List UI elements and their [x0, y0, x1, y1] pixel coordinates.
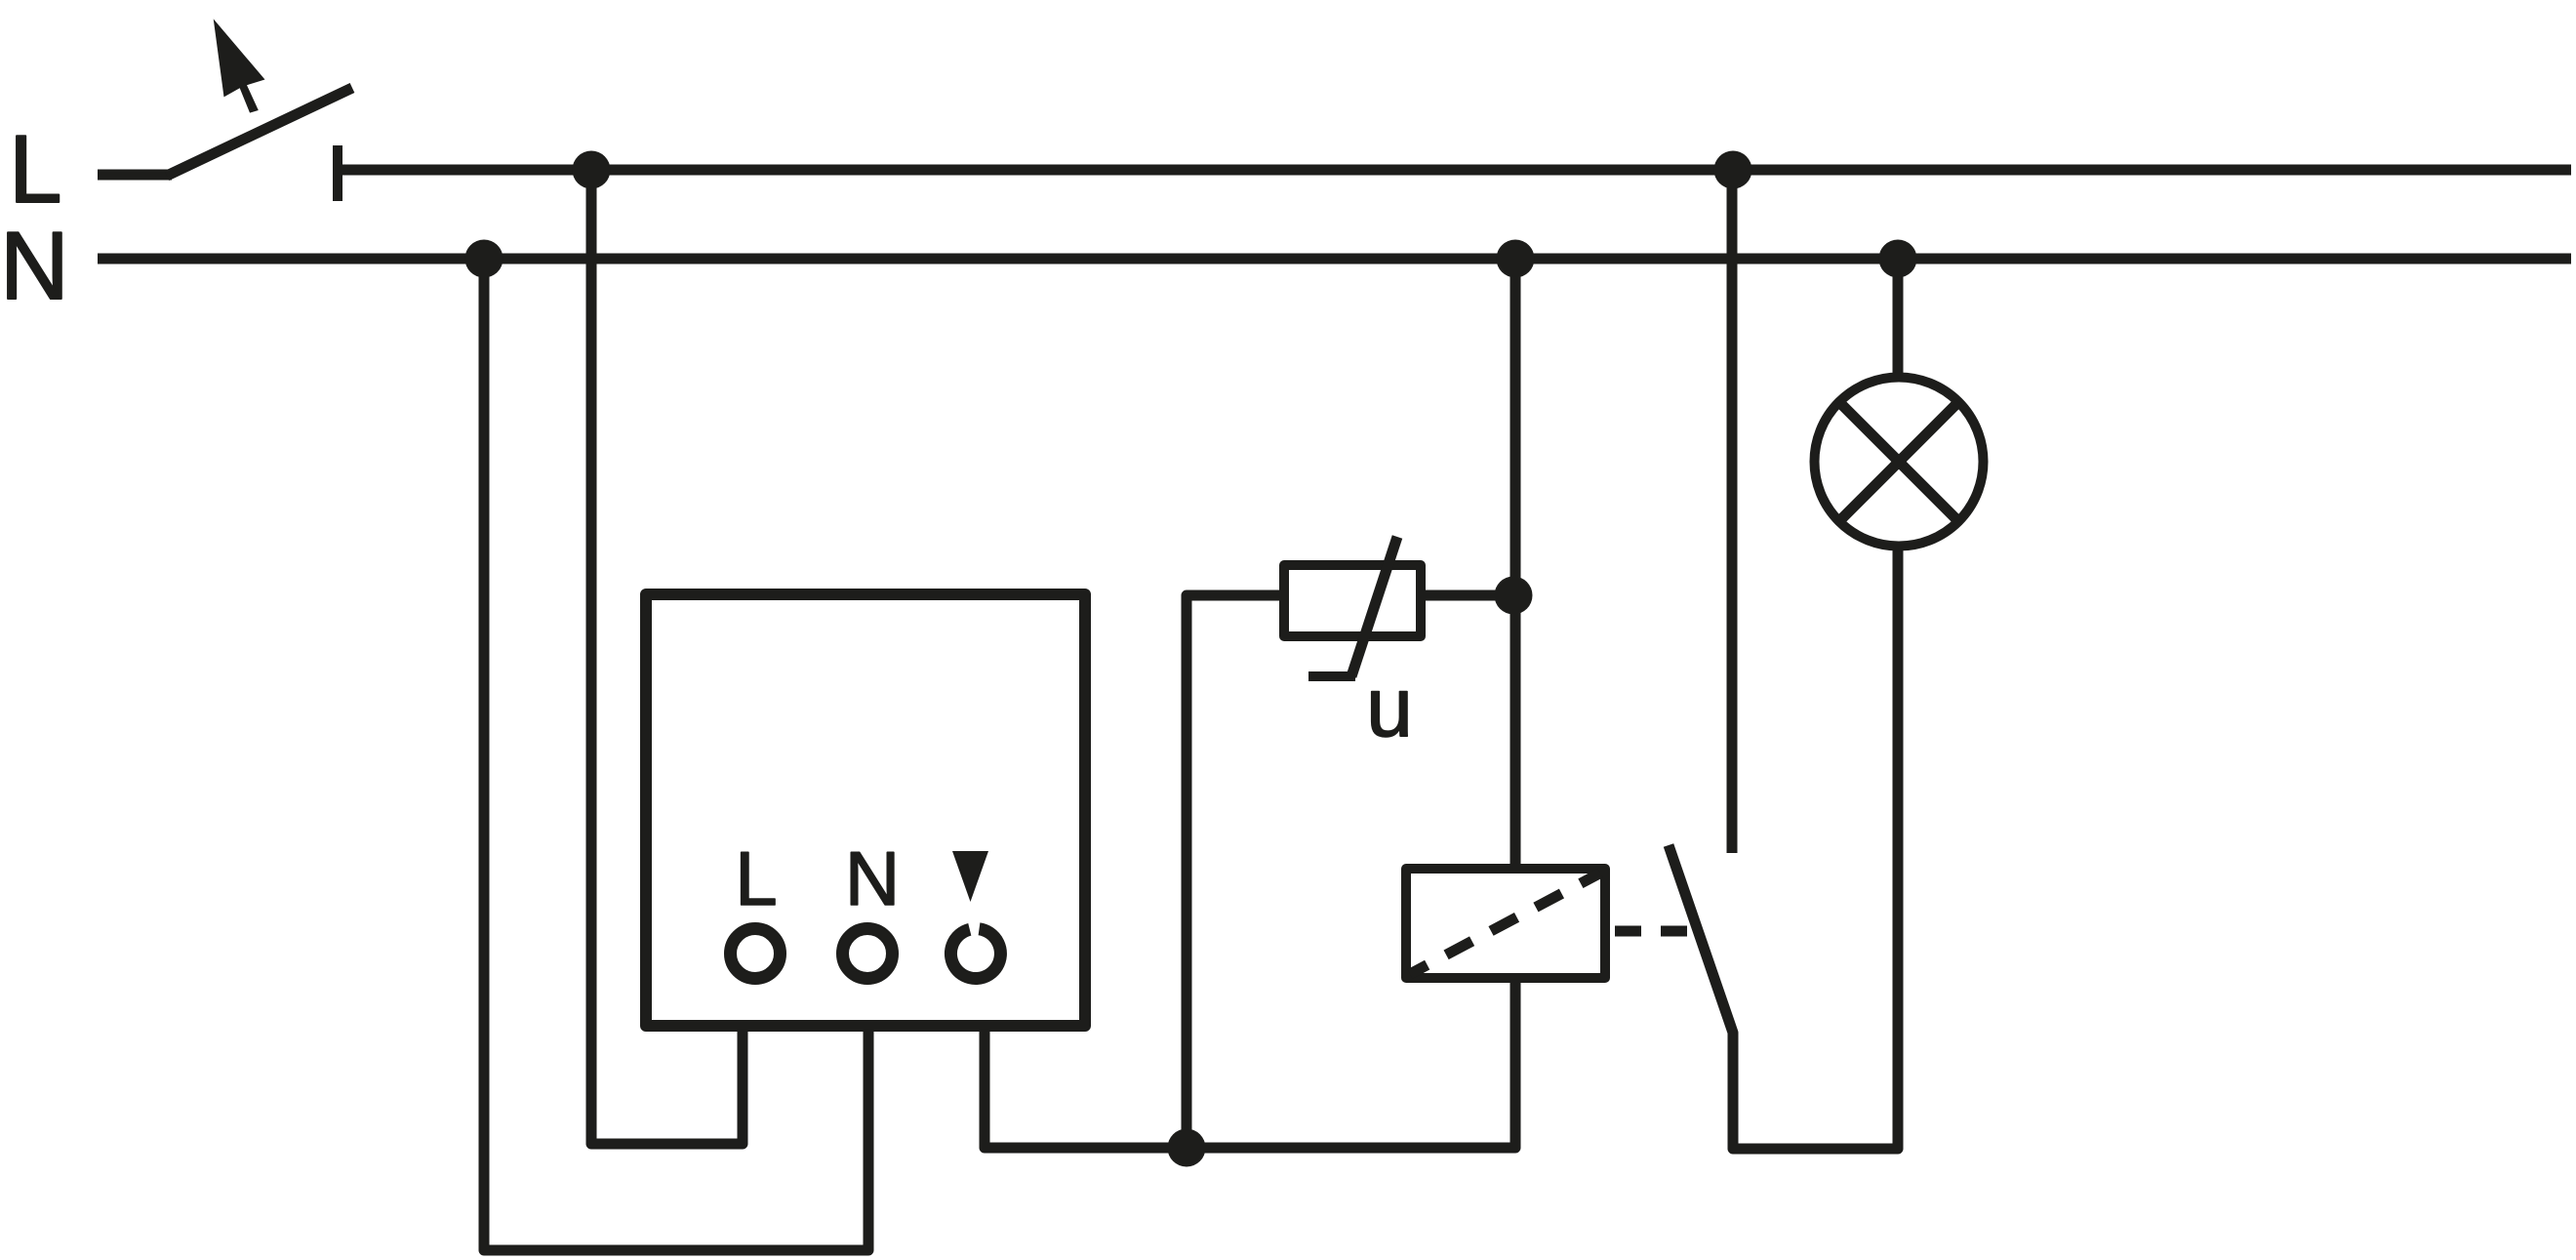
relay K1 coil box	[1406, 869, 1605, 978]
switch S1 blade	[167, 88, 352, 176]
wire N line main	[98, 254, 2571, 264]
lamp E1 circle	[1815, 378, 1984, 547]
varistor U1 diagonal stroke	[1351, 537, 1397, 676]
device output arrow label	[952, 851, 988, 902]
device terminal circle L	[731, 929, 781, 979]
svg-text:N: N	[0, 212, 69, 319]
varistor U1 box	[1284, 565, 1421, 636]
device box (flush-mounted insert)	[646, 594, 1085, 1026]
switch S1 left wire	[98, 170, 172, 181]
wire N dot to lamp top	[1893, 259, 1904, 380]
node dot on L line at x1776	[1714, 151, 1752, 189]
wire varistor left leg	[1187, 595, 1279, 1148]
wire device output stub to relay bottom	[985, 973, 1515, 1148]
device terminal circle N	[843, 929, 893, 979]
switch S1 fixed contact bar	[333, 145, 342, 201]
node dot at varistor right	[1495, 577, 1533, 615]
relay K1 dashed actuation diagonal	[1410, 874, 1600, 975]
varistor U1 bottom stub	[1308, 671, 1355, 681]
lamp E1 cross stroke 1	[1839, 402, 1958, 521]
svg-text:L: L	[9, 115, 62, 223]
wire L line main	[335, 165, 2571, 176]
svg-text:L: L	[735, 835, 777, 921]
wire N dot to relay coil top	[1510, 259, 1521, 871]
node dot on N line at x1553	[1497, 240, 1535, 278]
node dot on N line at x1945	[1879, 240, 1917, 278]
svg-text:N: N	[845, 835, 900, 921]
actuation arrow (cursor)	[214, 19, 265, 112]
node dot on N line at x496	[465, 240, 503, 278]
node dot at bottom junction x1216	[1168, 1129, 1206, 1167]
svg-text:u: u	[1366, 661, 1413, 754]
wire from N dot down bottom loop to device terminal N	[484, 259, 868, 1250]
lamp E1 cross stroke 2	[1839, 402, 1958, 521]
wire from L dot down-left loop to device terminal L	[591, 170, 743, 1144]
wire varistor right leg	[1421, 590, 1513, 601]
wire L dot to switch fixed contact	[1727, 170, 1738, 853]
device terminal circle output (with gap)	[950, 929, 1000, 979]
node dot on L line at x606	[573, 151, 611, 189]
relay K1 dashed mechanical link	[1615, 926, 1694, 937]
relay contact blade	[1669, 545, 1898, 1149]
